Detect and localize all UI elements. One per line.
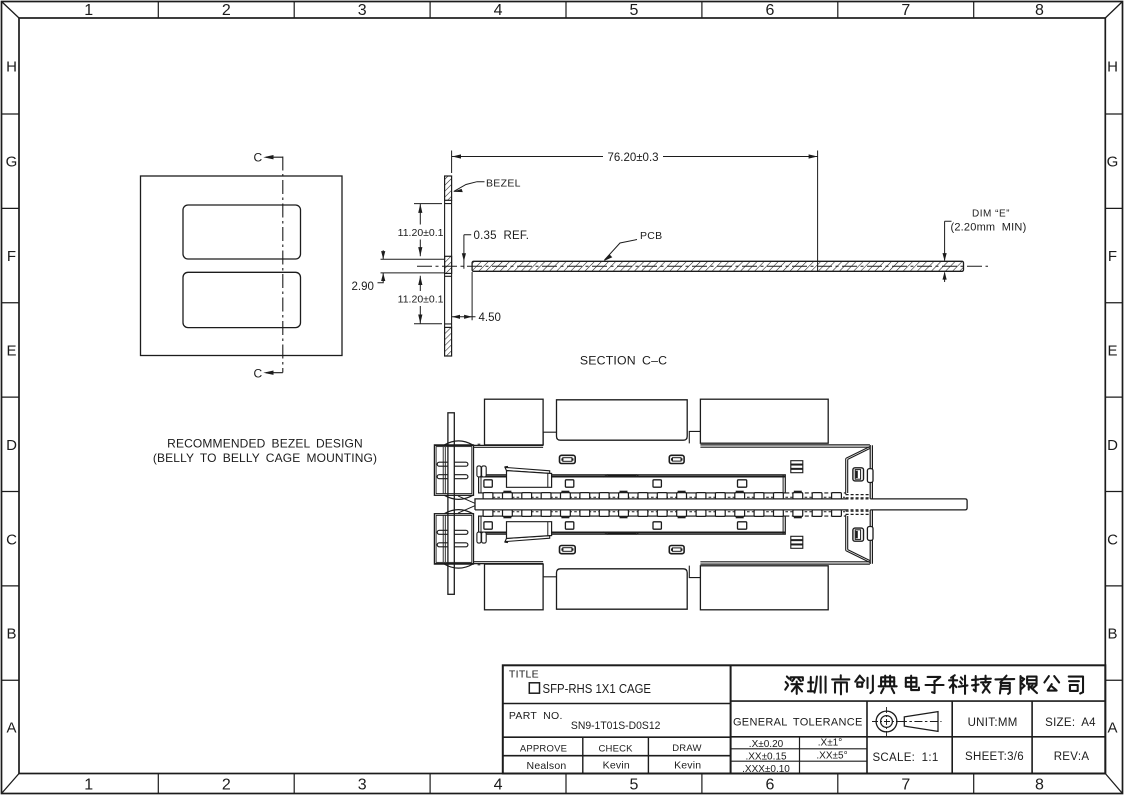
section arrow C bottom xyxy=(266,372,283,374)
svg-text:GENERAL TOLERANCE: GENERAL TOLERANCE xyxy=(733,717,863,729)
section cut centerline C-C (dash-dot vertical) xyxy=(282,157,284,373)
flange dome (bottom of upper cage) xyxy=(444,495,472,499)
svg-text:SN9-1T01S-D0S12: SN9-1T01S-D0S12 xyxy=(571,720,661,732)
svg-text:REV:A: REV:A xyxy=(1054,751,1090,763)
hidden finger edge under end cap (dashed) xyxy=(785,492,845,494)
cage front EMI pins (lower cage, mirrored) xyxy=(437,530,468,547)
EMI finger spine (dashed) xyxy=(483,496,845,498)
cage front EMI pins (upper cage) xyxy=(437,462,468,479)
svg-text:4: 4 xyxy=(494,777,503,794)
rail stamped tab (dark) xyxy=(608,474,637,477)
svg-text:2: 2 xyxy=(222,2,231,19)
svg-text:SIZE: A4: SIZE: A4 xyxy=(1045,717,1096,729)
svg-text:5: 5 xyxy=(630,777,639,794)
svg-text:SCALE: 1:1: SCALE: 1:1 xyxy=(872,752,938,764)
svg-text:PART NO.: PART NO. xyxy=(509,710,563,722)
dimension 2.90 xyxy=(381,259,445,273)
stamped clip detail left xyxy=(560,455,576,463)
bezel bar edges through openings xyxy=(445,200,452,327)
upper cage body xyxy=(434,399,873,504)
svg-text:DIM “E”: DIM “E” xyxy=(972,209,1010,220)
svg-text:C: C xyxy=(1107,531,1118,548)
module guide rail body xyxy=(479,475,786,493)
svg-text:4: 4 xyxy=(494,2,503,19)
svg-text:B: B xyxy=(6,626,16,643)
svg-text:SHEET:3/6: SHEET:3/6 xyxy=(965,751,1024,763)
svg-text:D: D xyxy=(1107,437,1118,454)
label PCB with leader xyxy=(605,240,638,261)
svg-text:1: 1 xyxy=(84,777,93,794)
svg-text:RECOMMENDED BEZEL DESIGN: RECOMMENDED BEZEL DESIGN xyxy=(167,437,363,451)
svg-text:SECTION C–C: SECTION C–C xyxy=(580,354,667,368)
svg-text:6: 6 xyxy=(765,2,774,19)
svg-text:A: A xyxy=(6,719,16,736)
tolerance mini-table lines xyxy=(731,737,867,774)
svg-text:Kevin: Kevin xyxy=(674,759,701,771)
svg-text:C: C xyxy=(6,531,17,548)
end cap side tab xyxy=(867,469,873,483)
svg-text:UNIT:MM: UNIT:MM xyxy=(968,717,1018,729)
PCB hidden edges under cage (dashed) xyxy=(846,499,871,510)
svg-text:F: F xyxy=(7,248,16,265)
label BEZEL with leader xyxy=(454,182,485,192)
section arrow C top xyxy=(266,156,283,158)
svg-text:(2.20mm MIN): (2.20mm MIN) xyxy=(951,222,1027,234)
svg-text:DRAW: DRAW xyxy=(672,743,701,754)
svg-text:11.20±0.1: 11.20±0.1 xyxy=(398,227,444,239)
third-angle projection symbol xyxy=(876,711,897,732)
step tabs between clips xyxy=(543,431,700,445)
heatsink clip rect 3 xyxy=(700,399,828,443)
company name (CJK glyph strokes) xyxy=(785,675,1083,694)
svg-text:2: 2 xyxy=(222,777,231,794)
svg-text:A: A xyxy=(1107,719,1117,736)
upper cutout opening xyxy=(183,205,301,259)
rail windows xyxy=(484,480,492,487)
PCB board (plan bar) xyxy=(475,499,967,510)
svg-text:APPROVE: APPROVE xyxy=(520,744,567,755)
svg-text:7: 7 xyxy=(901,2,910,19)
svg-text:.XX±0.15: .XX±0.15 xyxy=(745,752,787,763)
latch pivot clips xyxy=(477,466,481,477)
dimension 11.20±0.1 (upper opening) xyxy=(414,204,442,257)
svg-text:TITLE: TITLE xyxy=(509,669,539,681)
svg-text:4.50: 4.50 xyxy=(479,312,501,324)
svg-text:Nealson: Nealson xyxy=(527,760,567,772)
flange dome (top) xyxy=(444,441,472,445)
panel bezel plate (vertical bar) xyxy=(448,413,454,595)
svg-text:F: F xyxy=(1108,248,1117,265)
flange-PCB lead line xyxy=(458,496,475,504)
svg-text:.XXX±0.10: .XXX±0.10 xyxy=(742,764,790,775)
svg-text:CHECK: CHECK xyxy=(598,744,633,755)
dimension 4.50 xyxy=(452,272,476,320)
title block main dividers xyxy=(730,665,732,773)
bezel plate outline xyxy=(141,176,343,356)
end cap latch window xyxy=(853,468,864,481)
svg-text:6: 6 xyxy=(765,777,774,794)
dimension DIM "E" (2.20mm MIN) xyxy=(945,221,952,282)
svg-text:.XX±5°: .XX±5° xyxy=(816,750,847,761)
svg-text:(BELLY TO BELLY CAGE MOUNTING): (BELLY TO BELLY CAGE MOUNTING) xyxy=(153,451,377,465)
svg-text:BEZEL: BEZEL xyxy=(486,178,521,190)
svg-text:B: B xyxy=(1107,626,1117,643)
horizontal centerline (dash-dot) xyxy=(417,265,988,267)
EMI contact fingers row xyxy=(503,491,511,494)
PCB (section): long hatched bar xyxy=(472,261,963,271)
svg-text:3: 3 xyxy=(358,777,367,794)
svg-text:2.90: 2.90 xyxy=(352,281,374,293)
svg-text:.X±0.20: .X±0.20 xyxy=(749,739,784,750)
svg-text:8: 8 xyxy=(1035,777,1044,794)
dimension 0.35 REF. xyxy=(464,235,471,269)
svg-text:D: D xyxy=(6,437,17,454)
svg-text:1: 1 xyxy=(84,2,93,19)
svg-text:G: G xyxy=(6,154,18,171)
cage top edges xyxy=(435,445,870,447)
dimension 76.20±0.3 xyxy=(452,151,818,273)
bezel (section): hatched vertical bar xyxy=(445,176,452,356)
svg-text:76.20±0.3: 76.20±0.3 xyxy=(607,152,658,164)
svg-text:.X±1°: .X±1° xyxy=(818,737,843,748)
svg-text:5: 5 xyxy=(630,2,639,19)
svg-text:SFP-RHS 1X1 CAGE: SFP-RHS 1X1 CAGE xyxy=(543,681,652,696)
stamped clip detail right xyxy=(669,455,684,463)
svg-text:11.20±0.1: 11.20±0.1 xyxy=(398,293,444,305)
heatsink clip rect 2 (rounded) xyxy=(557,400,688,440)
pull latch handle xyxy=(504,466,508,469)
svg-text:C: C xyxy=(254,366,263,380)
svg-text:0.35 REF.: 0.35 REF. xyxy=(474,230,530,242)
svg-text:7: 7 xyxy=(901,777,910,794)
svg-text:8: 8 xyxy=(1035,2,1044,19)
svg-text:E: E xyxy=(6,343,16,360)
svg-text:E: E xyxy=(1107,343,1117,360)
dimension 11.20±0.1 (lower opening) xyxy=(414,276,442,324)
svg-text:H: H xyxy=(1107,59,1118,76)
lower cutout opening xyxy=(183,272,301,327)
svg-text:3: 3 xyxy=(358,2,367,19)
front flange box xyxy=(434,445,473,495)
svg-text:Kevin: Kevin xyxy=(603,759,630,771)
rear end cap xyxy=(870,445,872,505)
lower cage body (mirrored) xyxy=(434,505,873,610)
heatsink clip rect 1 xyxy=(485,399,544,445)
louver vent (3 slots) xyxy=(791,461,803,464)
svg-text:PCB: PCB xyxy=(640,230,663,242)
svg-text:G: G xyxy=(1107,154,1119,171)
svg-text:C: C xyxy=(254,150,263,164)
svg-text:H: H xyxy=(6,59,17,76)
